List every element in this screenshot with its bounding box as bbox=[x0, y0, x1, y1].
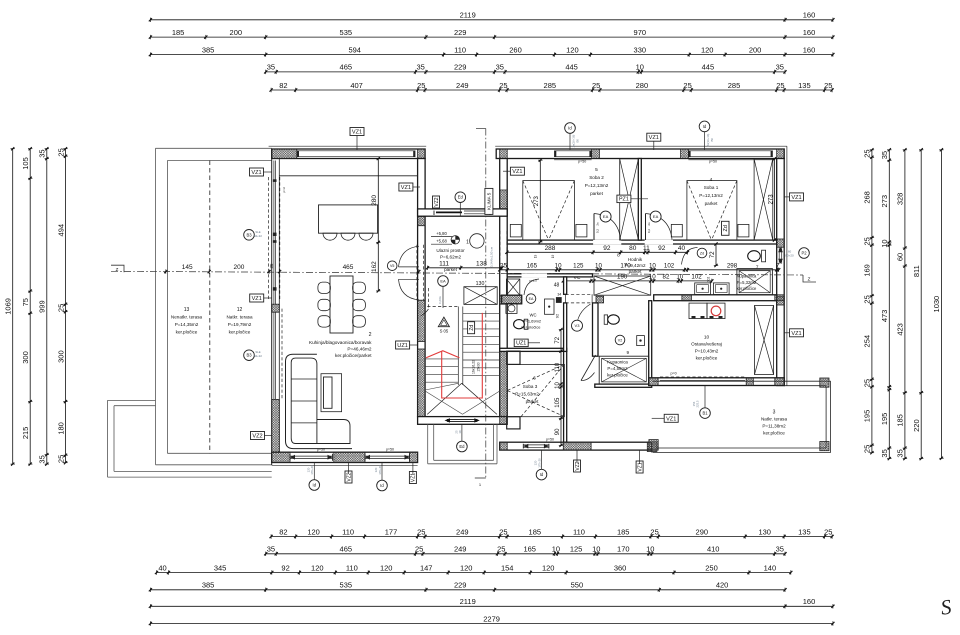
dimension column x=871.9 bbox=[871, 150, 873, 453]
south wall soba3 block bbox=[500, 442, 652, 450]
svg-text:V3: V3 bbox=[575, 323, 581, 328]
svg-text:328: 328 bbox=[896, 193, 905, 206]
svg-text:VZ2: VZ2 bbox=[434, 197, 440, 206]
PZ1 / Zd boxes bbox=[617, 195, 631, 203]
svg-text:ker.pločice: ker.pločice bbox=[229, 330, 251, 335]
svg-text:VZ1: VZ1 bbox=[791, 195, 801, 201]
soba3 east wall bbox=[564, 351, 567, 442]
svg-text:p=50: p=50 bbox=[578, 160, 586, 164]
svg-text:B3: B3 bbox=[246, 353, 252, 358]
svg-text:268: 268 bbox=[863, 191, 872, 204]
svg-text:PZ1: PZ1 bbox=[619, 197, 629, 203]
svg-text:130: 130 bbox=[758, 527, 771, 536]
svg-text:330: 330 bbox=[634, 45, 647, 54]
svg-text:92: 92 bbox=[555, 313, 560, 318]
svg-text:25: 25 bbox=[863, 295, 872, 303]
hodnik wardrobes bbox=[594, 276, 651, 295]
svg-text:10: 10 bbox=[649, 274, 656, 281]
svg-text:p=1,5: p=1,5 bbox=[529, 279, 537, 283]
svg-text:P=4,58m2: P=4,58m2 bbox=[607, 366, 628, 371]
svg-text:10: 10 bbox=[592, 545, 600, 554]
svg-text:970: 970 bbox=[634, 28, 647, 37]
svg-text:2279: 2279 bbox=[483, 614, 500, 623]
svg-text:385: 385 bbox=[202, 581, 215, 590]
svg-text:5: 5 bbox=[595, 167, 598, 173]
svg-text:6: 6 bbox=[533, 376, 536, 382]
svg-text:200: 200 bbox=[749, 45, 762, 54]
svg-text:P=19,79m2: P=19,79m2 bbox=[228, 322, 252, 327]
dimension row y=37.1 bbox=[150, 36, 833, 38]
svg-text:1069: 1069 bbox=[4, 298, 13, 315]
svg-text:Ulazni prostor: Ulazni prostor bbox=[436, 248, 465, 253]
svg-text:92: 92 bbox=[281, 563, 289, 572]
svg-text:25: 25 bbox=[683, 81, 691, 90]
svg-text:92: 92 bbox=[603, 245, 611, 252]
dimension column x=889.3 bbox=[888, 150, 890, 459]
svg-text:249: 249 bbox=[456, 81, 469, 90]
svg-text:V5: V5 bbox=[390, 264, 394, 268]
kup9 east wall bbox=[649, 301, 652, 384]
west wall window (french door) bbox=[273, 161, 275, 305]
svg-text:195: 195 bbox=[880, 413, 889, 426]
dimension column x=65.5 bbox=[65, 149, 67, 463]
svg-text:35: 35 bbox=[896, 449, 905, 457]
dimension row y=606.3 bbox=[150, 605, 833, 607]
svg-text:35: 35 bbox=[267, 63, 275, 72]
svg-text:2119: 2119 bbox=[460, 597, 476, 606]
svg-text:445: 445 bbox=[702, 63, 715, 72]
svg-text:1: 1 bbox=[466, 240, 469, 246]
VZ1 terrace3 bbox=[664, 414, 678, 422]
svg-text:VZ1: VZ1 bbox=[637, 462, 643, 471]
svg-text:EA: EA bbox=[529, 297, 534, 301]
VZ1 right top bbox=[790, 193, 804, 201]
svg-text:0,34/6x1,50 cm: 0,34/6x1,50 cm bbox=[489, 246, 493, 267]
svg-text:177: 177 bbox=[385, 527, 398, 536]
svg-text:82: 82 bbox=[279, 81, 287, 90]
kup7 sinks bbox=[695, 283, 711, 295]
svg-text:/50: /50 bbox=[710, 138, 714, 142]
svg-text:KLIMA 5: KLIMA 5 bbox=[487, 192, 492, 210]
svg-text:273: 273 bbox=[768, 194, 774, 205]
svg-text:Ostava/vešeraj: Ostava/vešeraj bbox=[691, 342, 722, 347]
dimension row y=269.8 bbox=[500, 269, 779, 271]
svg-text:0,2: 0,2 bbox=[647, 229, 651, 234]
door hodnik->kup7 bbox=[682, 248, 698, 265]
svg-text:102: 102 bbox=[691, 274, 702, 281]
svg-text:25: 25 bbox=[500, 263, 507, 270]
left flight treads bbox=[425, 358, 458, 360]
svg-text:550: 550 bbox=[571, 581, 584, 590]
svg-text:220: 220 bbox=[912, 419, 921, 432]
svg-text:Natkr. terasa: Natkr. terasa bbox=[761, 417, 787, 422]
svg-text:90: 90 bbox=[555, 428, 561, 435]
hodnik south wall bbox=[507, 274, 592, 277]
B3 circles bbox=[244, 230, 255, 241]
svg-text:300: 300 bbox=[21, 351, 30, 364]
svg-text:185: 185 bbox=[617, 527, 630, 536]
svg-text:ker.pločice: ker.pločice bbox=[607, 373, 628, 378]
svg-text:229: 229 bbox=[454, 28, 467, 37]
svg-text:35: 35 bbox=[496, 63, 504, 72]
svg-text:25: 25 bbox=[776, 81, 784, 90]
svg-text:parket: parket bbox=[526, 399, 539, 404]
svg-text:Z: Z bbox=[808, 277, 811, 282]
dimension column x=540.3 bbox=[539, 160, 541, 242]
svg-text:VZ1: VZ1 bbox=[791, 331, 801, 337]
svg-text:0,2: 0,2 bbox=[596, 229, 600, 234]
svg-text:VZ1: VZ1 bbox=[251, 170, 261, 176]
stair east wall bbox=[500, 159, 508, 417]
svg-text:160: 160 bbox=[803, 28, 816, 37]
dining table bbox=[330, 276, 353, 333]
svg-text:35: 35 bbox=[38, 149, 47, 157]
svg-text:parket: parket bbox=[590, 191, 603, 196]
svg-text:254: 254 bbox=[863, 335, 872, 348]
svg-text:162: 162 bbox=[371, 261, 378, 272]
svg-text:ker.pločice: ker.pločice bbox=[696, 356, 718, 361]
svg-text:25: 25 bbox=[863, 445, 872, 453]
svg-text:288: 288 bbox=[545, 245, 556, 252]
stair west wall bbox=[418, 159, 426, 417]
terrace divider dashed bbox=[209, 161, 211, 454]
dimension column x=30.2 bbox=[29, 149, 31, 464]
svg-text:110: 110 bbox=[454, 45, 466, 54]
svg-text:25: 25 bbox=[863, 149, 872, 157]
svg-text:298: 298 bbox=[727, 263, 738, 270]
svg-text:Natkr. terasa: Natkr. terasa bbox=[226, 315, 252, 320]
svg-text:2: 2 bbox=[369, 332, 372, 338]
svg-text:P=12,13m2: P=12,13m2 bbox=[699, 193, 723, 198]
VZ1 top-left bbox=[250, 168, 264, 176]
svg-text:VZ2: VZ2 bbox=[575, 461, 581, 470]
svg-text:35: 35 bbox=[269, 263, 274, 269]
svg-text:ker.pločice: ker.pločice bbox=[763, 431, 785, 436]
terrace lower step bbox=[108, 399, 156, 401]
stair red marks bbox=[426, 351, 459, 358]
svg-text:229: 229 bbox=[454, 581, 467, 590]
dimension column x=716.0 bbox=[715, 244, 717, 266]
svg-text:35: 35 bbox=[417, 63, 425, 72]
svg-text:19: 19 bbox=[551, 255, 555, 259]
svg-text:V2: V2 bbox=[618, 338, 622, 342]
svg-text:594: 594 bbox=[348, 45, 361, 54]
svg-text:P=12,13m2: P=12,13m2 bbox=[585, 183, 609, 188]
svg-text:16x16,22: 16x16,22 bbox=[472, 360, 476, 374]
UZ1 left of stairs bbox=[396, 341, 410, 349]
svg-text:Zd: Zd bbox=[469, 325, 475, 331]
svg-text:10: 10 bbox=[552, 545, 560, 554]
toilet kup9 bbox=[608, 315, 620, 324]
svg-text:407: 407 bbox=[350, 81, 363, 90]
wc toilet bbox=[514, 320, 525, 329]
svg-text:parket: parket bbox=[705, 201, 718, 206]
svg-text:249: 249 bbox=[454, 545, 467, 554]
dimension row y=54.6 bbox=[150, 54, 833, 56]
kupaonica 9 tub bbox=[599, 356, 649, 384]
Id circles bottom bbox=[309, 480, 320, 491]
svg-text:VZ2: VZ2 bbox=[346, 472, 352, 481]
VZ1 left mid bbox=[250, 294, 264, 302]
svg-text:ker.pločice: ker.pločice bbox=[522, 325, 542, 330]
svg-text:169: 169 bbox=[863, 264, 872, 277]
svg-text:VZ2: VZ2 bbox=[252, 434, 262, 440]
svg-text:35: 35 bbox=[267, 545, 275, 554]
svg-text:0,2/4s: 0,2/4s bbox=[438, 296, 442, 304]
svg-text:999: 999 bbox=[38, 300, 47, 313]
VZ1 above bedroom bbox=[647, 133, 661, 141]
section line Z bbox=[111, 271, 803, 275]
svg-text:80+20: 80+20 bbox=[785, 253, 794, 257]
svg-text:260: 260 bbox=[509, 45, 522, 54]
dimension row y=71.9 bbox=[266, 71, 785, 73]
shaft blocks bbox=[545, 299, 555, 314]
svg-text:10: 10 bbox=[646, 545, 654, 554]
dimension row y=536.5 bbox=[271, 536, 832, 538]
svg-text:25: 25 bbox=[415, 545, 423, 554]
dimension column x=904.9 bbox=[904, 150, 906, 459]
svg-text:110: 110 bbox=[342, 527, 354, 536]
svg-text:40: 40 bbox=[678, 245, 686, 252]
svg-text:165: 165 bbox=[523, 545, 536, 554]
svg-text:/50: /50 bbox=[576, 139, 580, 143]
svg-text:25: 25 bbox=[863, 379, 872, 387]
dimension column x=774.5 bbox=[774, 159, 776, 240]
svg-text:195: 195 bbox=[863, 410, 872, 423]
svg-text:25: 25 bbox=[56, 148, 65, 156]
svg-text:Z: Z bbox=[116, 267, 119, 272]
stair block south wall + door bbox=[418, 417, 508, 425]
soba1 wardrobe bbox=[754, 159, 773, 240]
svg-text:154: 154 bbox=[501, 563, 514, 572]
svg-text:170: 170 bbox=[617, 545, 630, 554]
svg-text:72: 72 bbox=[709, 251, 716, 258]
entry level marks bbox=[431, 236, 452, 238]
svg-text:60: 60 bbox=[896, 253, 905, 261]
svg-text:13: 13 bbox=[184, 307, 190, 313]
svg-text:Kuhinja/blagovaonica/boravak: Kuhinja/blagovaonica/boravak bbox=[309, 340, 372, 345]
kup9 south wall bbox=[595, 384, 652, 387]
svg-text:110: 110 bbox=[346, 563, 358, 572]
Ed top entry bbox=[455, 192, 466, 203]
svg-text:445: 445 bbox=[565, 63, 578, 72]
triangle S05 bbox=[438, 317, 449, 327]
svg-text:Zd: Zd bbox=[700, 251, 704, 255]
svg-text:p=50: p=50 bbox=[546, 438, 554, 442]
svg-text:P=11,38m2: P=11,38m2 bbox=[762, 424, 786, 429]
wall x592 corridor bbox=[593, 303, 599, 356]
svg-text:10: 10 bbox=[555, 382, 561, 389]
svg-text:9: 9 bbox=[627, 350, 630, 355]
svg-text:P=5,32m2: P=5,32m2 bbox=[737, 280, 757, 285]
svg-text:Ed: Ed bbox=[459, 444, 465, 449]
KLIMA 5 bbox=[485, 188, 493, 214]
svg-text:12: 12 bbox=[237, 307, 243, 313]
svg-text:811: 811 bbox=[912, 265, 921, 277]
svg-text:465: 465 bbox=[340, 63, 353, 72]
svg-text:494: 494 bbox=[56, 224, 65, 237]
dimension column x=941.4 bbox=[940, 150, 942, 459]
terrace 3 bbox=[653, 380, 831, 382]
svg-text:120: 120 bbox=[566, 45, 579, 54]
washer+dryer bbox=[689, 303, 707, 319]
Ed bottom bbox=[457, 441, 468, 452]
svg-text:285: 285 bbox=[728, 81, 741, 90]
wc washbasin bbox=[506, 303, 517, 313]
svg-text:VZ1: VZ1 bbox=[649, 135, 659, 141]
svg-text:7: 7 bbox=[776, 263, 780, 270]
top wall bedrooms segment bbox=[496, 149, 784, 159]
svg-text:EA: EA bbox=[440, 278, 446, 283]
kitchen door opening dashes bbox=[428, 288, 430, 309]
svg-text:185: 185 bbox=[172, 28, 185, 37]
svg-text:120: 120 bbox=[311, 563, 324, 572]
svg-text:105: 105 bbox=[555, 397, 561, 408]
svg-text:92: 92 bbox=[658, 245, 666, 252]
svg-text:72: 72 bbox=[555, 336, 561, 343]
svg-text:parket: parket bbox=[629, 269, 642, 274]
svg-text:130: 130 bbox=[476, 281, 485, 287]
svg-text:+5,68: +5,68 bbox=[436, 239, 447, 244]
svg-text:UZ1: UZ1 bbox=[516, 341, 526, 347]
svg-text:25: 25 bbox=[592, 81, 600, 90]
apron under south wall bbox=[272, 465, 418, 467]
svg-text:VZ1: VZ1 bbox=[666, 416, 676, 422]
svg-text:273: 273 bbox=[534, 195, 540, 206]
svg-text:120: 120 bbox=[307, 527, 320, 536]
east exterior wall bbox=[777, 159, 785, 386]
bedroom doors bbox=[593, 214, 595, 241]
svg-text:25: 25 bbox=[56, 304, 65, 312]
soba3 bed bbox=[507, 364, 564, 416]
bedroom south wall / hodnik north bbox=[507, 240, 777, 244]
svg-text:10: 10 bbox=[555, 263, 562, 270]
svg-text:P=10,43m2: P=10,43m2 bbox=[695, 349, 719, 354]
stair upper closet bbox=[464, 287, 497, 305]
svg-text:410: 410 bbox=[707, 545, 720, 554]
south wall living room bbox=[272, 452, 418, 462]
svg-text:25: 25 bbox=[863, 237, 872, 245]
svg-text:465: 465 bbox=[343, 264, 354, 271]
svg-text:p=d: p=d bbox=[282, 187, 286, 192]
svg-text:EA: EA bbox=[653, 214, 659, 219]
svg-text:P=15,63m2: P=15,63m2 bbox=[515, 392, 539, 397]
svg-text:465: 465 bbox=[340, 545, 353, 554]
svg-text:15x30: 15x30 bbox=[477, 362, 481, 371]
svg-text:300: 300 bbox=[56, 350, 65, 363]
svg-text:VZ1: VZ1 bbox=[512, 169, 522, 175]
svg-text:82: 82 bbox=[279, 527, 287, 536]
svg-text:Kupaonica: Kupaonica bbox=[607, 360, 628, 365]
svg-text:345: 345 bbox=[214, 563, 227, 572]
svg-text:290: 290 bbox=[696, 527, 709, 536]
west wall living room bbox=[271, 149, 273, 465]
kitchen counter bbox=[279, 175, 417, 177]
svg-text:138: 138 bbox=[476, 261, 487, 268]
dimension row y=280.9 bbox=[563, 280, 712, 282]
svg-text:200: 200 bbox=[230, 28, 243, 37]
svg-text:VZ1: VZ1 bbox=[352, 130, 362, 136]
svg-text:147: 147 bbox=[420, 563, 433, 572]
ostava wardrobe bbox=[755, 306, 774, 375]
svg-text:1030: 1030 bbox=[932, 296, 941, 313]
svg-text:360: 360 bbox=[614, 563, 627, 572]
VZ1 rot near stair top bbox=[433, 196, 440, 208]
dimension column x=46.8 bbox=[46, 149, 48, 464]
svg-text:111: 111 bbox=[439, 261, 449, 268]
svg-text:82: 82 bbox=[663, 274, 670, 281]
svg-text:Soba 2: Soba 2 bbox=[589, 175, 604, 180]
svg-text:p=50: p=50 bbox=[386, 448, 394, 452]
svg-text:535: 535 bbox=[340, 28, 353, 37]
tv cabinet bbox=[321, 374, 342, 412]
vertical section line bbox=[485, 129, 487, 479]
svg-text:Zd: Zd bbox=[723, 225, 729, 231]
svg-text:25: 25 bbox=[650, 527, 658, 536]
dashed opening hodnik->corridor bbox=[566, 293, 593, 295]
svg-text:35: 35 bbox=[776, 63, 784, 72]
kitchen island bbox=[319, 205, 378, 233]
dimension column x=378.3 bbox=[377, 159, 379, 291]
svg-text:160: 160 bbox=[803, 11, 816, 20]
svg-text:ker.pločice: ker.pločice bbox=[737, 286, 757, 291]
svg-text:WC: WC bbox=[530, 313, 537, 318]
svg-text:25: 25 bbox=[499, 527, 507, 536]
svg-text:215: 215 bbox=[21, 427, 30, 440]
svg-text:11: 11 bbox=[643, 245, 650, 252]
svg-text:35: 35 bbox=[38, 455, 47, 463]
svg-text:25: 25 bbox=[417, 81, 425, 90]
svg-text:p=50: p=50 bbox=[709, 160, 717, 164]
svg-text:25: 25 bbox=[824, 81, 832, 90]
svg-text:140: 140 bbox=[764, 563, 777, 572]
svg-text:125: 125 bbox=[570, 545, 583, 554]
door to wc lobby bbox=[524, 279, 539, 295]
svg-text:2s: 2s bbox=[596, 222, 600, 226]
entry landing below stairs bbox=[427, 424, 429, 464]
svg-text:185: 185 bbox=[529, 527, 542, 536]
svg-text:10: 10 bbox=[595, 263, 602, 270]
svg-text:p=0: p=0 bbox=[671, 372, 677, 376]
svg-text:249: 249 bbox=[456, 527, 469, 536]
svg-text:102: 102 bbox=[706, 277, 710, 283]
svg-text:35: 35 bbox=[880, 449, 889, 457]
dimension row y=589.8 bbox=[150, 589, 785, 591]
dimension column x=921.2 bbox=[920, 150, 922, 459]
dimension row y=19.8 bbox=[150, 19, 833, 21]
svg-text:35: 35 bbox=[880, 151, 889, 159]
svg-text:UZ1: UZ1 bbox=[397, 343, 408, 349]
svg-text:VZ1: VZ1 bbox=[401, 185, 411, 191]
svg-text:4: 4 bbox=[710, 177, 713, 183]
benchmark symbol bbox=[451, 236, 459, 244]
svg-text:185: 185 bbox=[896, 414, 905, 427]
dimension row y=623.5 bbox=[150, 623, 833, 625]
door corridor->south bbox=[577, 304, 591, 329]
svg-text:473: 473 bbox=[880, 310, 889, 323]
svg-text:535: 535 bbox=[340, 581, 353, 590]
svg-text:110: 110 bbox=[573, 527, 585, 536]
outer contour top/east bbox=[269, 145, 427, 147]
dimension column x=561.0 bbox=[560, 330, 562, 446]
svg-text:48: 48 bbox=[554, 283, 560, 289]
svg-text:75: 75 bbox=[21, 298, 30, 306]
stair stringers bbox=[457, 307, 459, 386]
svg-text:35: 35 bbox=[776, 545, 784, 554]
svg-text:Ed: Ed bbox=[458, 195, 464, 200]
B1 circle bbox=[700, 408, 711, 419]
svg-text:Kupaonica: Kupaonica bbox=[737, 274, 757, 279]
